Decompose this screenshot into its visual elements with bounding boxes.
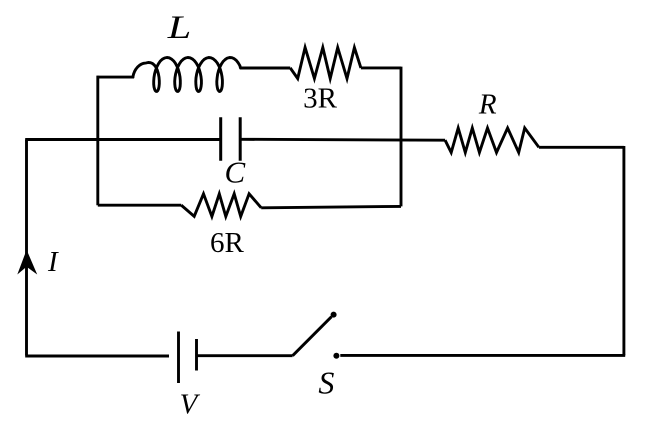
- resistor R: [445, 128, 539, 153]
- switch S fixed contact dot: [333, 353, 339, 359]
- svg-text:L: L: [166, 10, 191, 46]
- wire: bottom branch lead-in to resistor 6R: [98, 204, 181, 207]
- battery V negative plate (short): [195, 339, 198, 371]
- wire: parallel-block left edge: [96, 76, 99, 206]
- wire: resistor R to top-right corner: [539, 146, 624, 149]
- wire: switch to battery: [197, 354, 293, 357]
- resistor 3R: [290, 48, 361, 79]
- wire: inductor to resistor 3R: [240, 67, 290, 70]
- svg-text:S: S: [318, 364, 334, 400]
- resistor 6R: [181, 194, 261, 217]
- wire: middle horizontal, capacitor to resistor R: [240, 138, 445, 142]
- wire: resistor 3R to block right edge: [361, 66, 401, 69]
- svg-text:R: R: [478, 89, 497, 121]
- svg-text:6R: 6R: [210, 227, 245, 259]
- capacitor C: [221, 117, 241, 161]
- wire: top branch lead-in to inductor: [97, 76, 135, 79]
- svg-text:3R: 3R: [303, 83, 338, 115]
- wire: battery to bottom-left corner: [25, 355, 169, 358]
- wire: left vertical branch: [25, 140, 28, 356]
- svg-text:V: V: [180, 388, 201, 420]
- current arrow I (on left wire, pointing up): [17, 250, 37, 275]
- wire: bottom right segment (corner to switch): [340, 354, 625, 357]
- svg-text:C: C: [224, 154, 245, 189]
- wire: middle horizontal, left segment (outer left wire to capacitor): [25, 138, 221, 141]
- switch S arm with moving contact dot: [293, 317, 332, 356]
- inductor L: [133, 58, 241, 92]
- wire: resistor 6R to block right edge: [261, 206, 401, 207]
- wire: parallel-block right edge: [400, 67, 403, 207]
- wire: right vertical branch: [622, 146, 625, 355]
- battery V positive plate (long): [177, 332, 180, 384]
- svg-text:I: I: [47, 246, 59, 278]
